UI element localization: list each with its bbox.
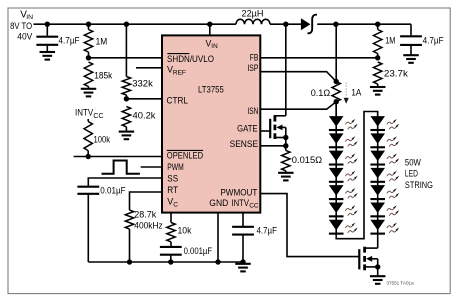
label 50W LED STRING — [405, 157, 433, 190]
wire INTVCC pin — [242, 213, 244, 226]
node diode out junction — [333, 22, 338, 27]
resistor 0.015ohm — [282, 150, 290, 172]
svg-text:GATE: GATE — [237, 123, 258, 133]
label 0.015ohm — [292, 155, 322, 166]
svg-text:PWM: PWM — [167, 162, 184, 172]
svg-text:ISP: ISP — [247, 63, 258, 73]
svg-text:23.7k: 23.7k — [384, 69, 408, 80]
svg-text:0.01µF: 0.01µF — [100, 185, 125, 196]
svg-text:IN: IN — [26, 14, 33, 21]
wire SENSE pin — [260, 145, 286, 147]
label 332k — [132, 79, 153, 90]
wire GND pin — [215, 213, 220, 265]
svg-text:1M: 1M — [96, 37, 108, 48]
capacitor 4.7uF input — [36, 22, 58, 53]
wire SS — [88, 178, 162, 186]
svg-text:PWMOUT: PWMOUT — [220, 188, 257, 198]
capacitor 4.7uF intvcc — [232, 227, 254, 265]
svg-text:SHDN/UVLO: SHDN/UVLO — [167, 54, 214, 64]
resistor 0.1ohm — [332, 24, 340, 116]
diode D1 schottky — [301, 15, 317, 34]
capacitor 0.001uF — [160, 247, 182, 265]
wire VC — [170, 213, 172, 223]
svg-text:GND: GND — [209, 198, 228, 208]
wire GATE pin — [260, 130, 269, 132]
wire string to drain — [377, 236, 379, 248]
label IC GATE — [237, 123, 258, 133]
led string left column — [329, 102, 344, 237]
wire CTRL — [126, 98, 162, 100]
svg-text:0.1Ω: 0.1Ω — [311, 88, 331, 99]
ground pwm fet — [370, 276, 386, 284]
IC U1 LT3755 — [162, 35, 260, 212]
ground 23.7k — [370, 87, 386, 95]
resistor 1M output — [374, 22, 382, 61]
svg-text:185k: 185k — [94, 70, 112, 81]
transistor Q1 main switch NMOS — [270, 115, 288, 150]
svg-text:37551 TA01a: 37551 TA01a — [386, 281, 414, 286]
svg-text:100k: 100k — [94, 135, 111, 146]
ground input cap — [40, 52, 56, 60]
label IC VIN — [206, 39, 219, 51]
capacitor 0.01uF — [77, 187, 99, 262]
svg-text:0.001µF: 0.001µF — [184, 246, 213, 257]
svg-text:IN: IN — [211, 43, 218, 50]
svg-text:ISN: ISN — [247, 106, 258, 116]
current arrow 1A — [344, 83, 349, 104]
label IC ISN — [247, 106, 258, 116]
svg-text:SENSE: SENSE — [230, 139, 259, 149]
wire VIN pin stub — [207, 22, 212, 37]
svg-text:FB: FB — [250, 53, 259, 63]
svg-text:400kHz: 400kHz — [134, 220, 163, 231]
label 4.7uF intvcc — [257, 225, 278, 236]
transistor Q2 PWM dimming NMOS — [359, 247, 380, 271]
wire source to ground — [377, 267, 379, 276]
node INTVCC — [75, 108, 104, 121]
label 4.7uF input — [59, 36, 80, 47]
label 1A — [351, 87, 361, 98]
label IC OPENLED — [167, 150, 204, 160]
svg-text:CTRL: CTRL — [167, 96, 189, 106]
wire ISP — [260, 72, 336, 82]
wire RT — [130, 192, 163, 210]
wire FB — [260, 57, 377, 59]
label 4.7uF output — [423, 36, 444, 47]
label IC GND — [209, 198, 228, 208]
label 0.01uF — [100, 185, 125, 196]
wire OPENLED — [74, 156, 162, 158]
resistor 28.7k — [125, 210, 133, 265]
wire PWMOUT — [260, 194, 359, 257]
svg-text:LED: LED — [405, 169, 418, 179]
label figure number — [386, 281, 414, 286]
label IC LT3755 — [198, 85, 224, 96]
label IC PWMOUT — [220, 188, 257, 198]
svg-text:STRING: STRING — [405, 180, 433, 190]
pwm pulse symbol — [102, 161, 140, 174]
wire PWM — [141, 166, 162, 168]
resistor 185k — [84, 62, 92, 89]
ground 0.015ohm — [278, 173, 294, 181]
wire SHDN — [89, 57, 163, 59]
label IC FB — [250, 53, 259, 63]
svg-text:RT: RT — [167, 185, 178, 195]
svg-text:CC: CC — [93, 113, 103, 120]
label 1M input — [96, 37, 108, 48]
label 10k — [178, 225, 192, 236]
resistor 40.2k — [122, 107, 130, 132]
label IC SHDN/UVLO — [167, 54, 214, 64]
label 28.7k 400kHz — [134, 210, 163, 232]
wire drain from rail — [285, 24, 287, 116]
svg-text:0.015Ω: 0.015Ω — [292, 155, 322, 166]
svg-text:22µH: 22µH — [242, 9, 264, 20]
wire ISN — [260, 102, 336, 110]
label IC CTRL — [167, 96, 189, 106]
led arrows left column — [345, 119, 357, 233]
ground intvcc — [235, 264, 251, 272]
svg-text:50W: 50W — [405, 157, 421, 167]
label 0.001uF — [184, 246, 213, 257]
led arrows right column — [387, 119, 399, 233]
svg-text:28.7k: 28.7k — [134, 210, 156, 221]
svg-text:CC: CC — [249, 203, 259, 210]
label 185k — [94, 70, 112, 81]
resistor 332k — [122, 22, 130, 102]
ground 40.2k — [119, 132, 134, 140]
inductor 22uH — [236, 19, 270, 24]
svg-text:8V TO: 8V TO — [10, 21, 32, 32]
label IC VREF — [167, 65, 186, 77]
label IC INTVCC pin — [232, 198, 259, 210]
svg-text:4.7µF: 4.7µF — [423, 36, 444, 47]
svg-text:40.2k: 40.2k — [133, 111, 156, 122]
label IC SENSE — [230, 139, 259, 149]
svg-text:10k: 10k — [178, 225, 192, 236]
label IC SS — [167, 173, 178, 183]
capacitor 4.7uF output — [400, 24, 422, 55]
node switch junction — [283, 22, 288, 27]
svg-text:LT3755: LT3755 — [198, 85, 224, 96]
label 40.2k — [133, 111, 156, 122]
resistor 1M input — [84, 22, 92, 61]
svg-text:INTV: INTV — [75, 108, 94, 119]
ground 185k — [81, 89, 97, 97]
svg-text:SS: SS — [167, 173, 178, 183]
wire input rail — [34, 23, 412, 25]
label 1M output — [385, 36, 395, 47]
label 100k — [94, 135, 111, 146]
svg-text:1A: 1A — [351, 87, 361, 98]
svg-text:332k: 332k — [132, 79, 153, 90]
svg-text:OPENLED: OPENLED — [167, 150, 204, 160]
label IC PWM — [167, 162, 184, 172]
svg-text:4.7µF: 4.7µF — [257, 225, 278, 236]
svg-text:C: C — [173, 201, 178, 208]
svg-text:1M: 1M — [385, 36, 395, 47]
resistor 100k — [84, 119, 92, 159]
wire string mid link — [336, 112, 378, 239]
svg-text:REF: REF — [173, 69, 186, 76]
led string right column — [370, 112, 385, 237]
label IC RT — [167, 185, 178, 195]
label 22uH — [242, 9, 264, 20]
wire bottom rail — [88, 261, 243, 263]
resistor 10k — [167, 223, 175, 248]
node VIN input — [10, 10, 33, 43]
resistor 23.7k — [374, 62, 382, 87]
label IC ISP — [247, 63, 258, 73]
ground output cap — [403, 55, 419, 63]
svg-text:INTV: INTV — [232, 198, 250, 208]
label 0.1ohm — [311, 88, 331, 99]
wire VREF stub — [136, 67, 162, 69]
svg-text:40V: 40V — [17, 32, 33, 43]
label 23.7k — [384, 69, 408, 80]
svg-text:4.7µF: 4.7µF — [59, 36, 80, 47]
label IC VC — [167, 197, 178, 209]
